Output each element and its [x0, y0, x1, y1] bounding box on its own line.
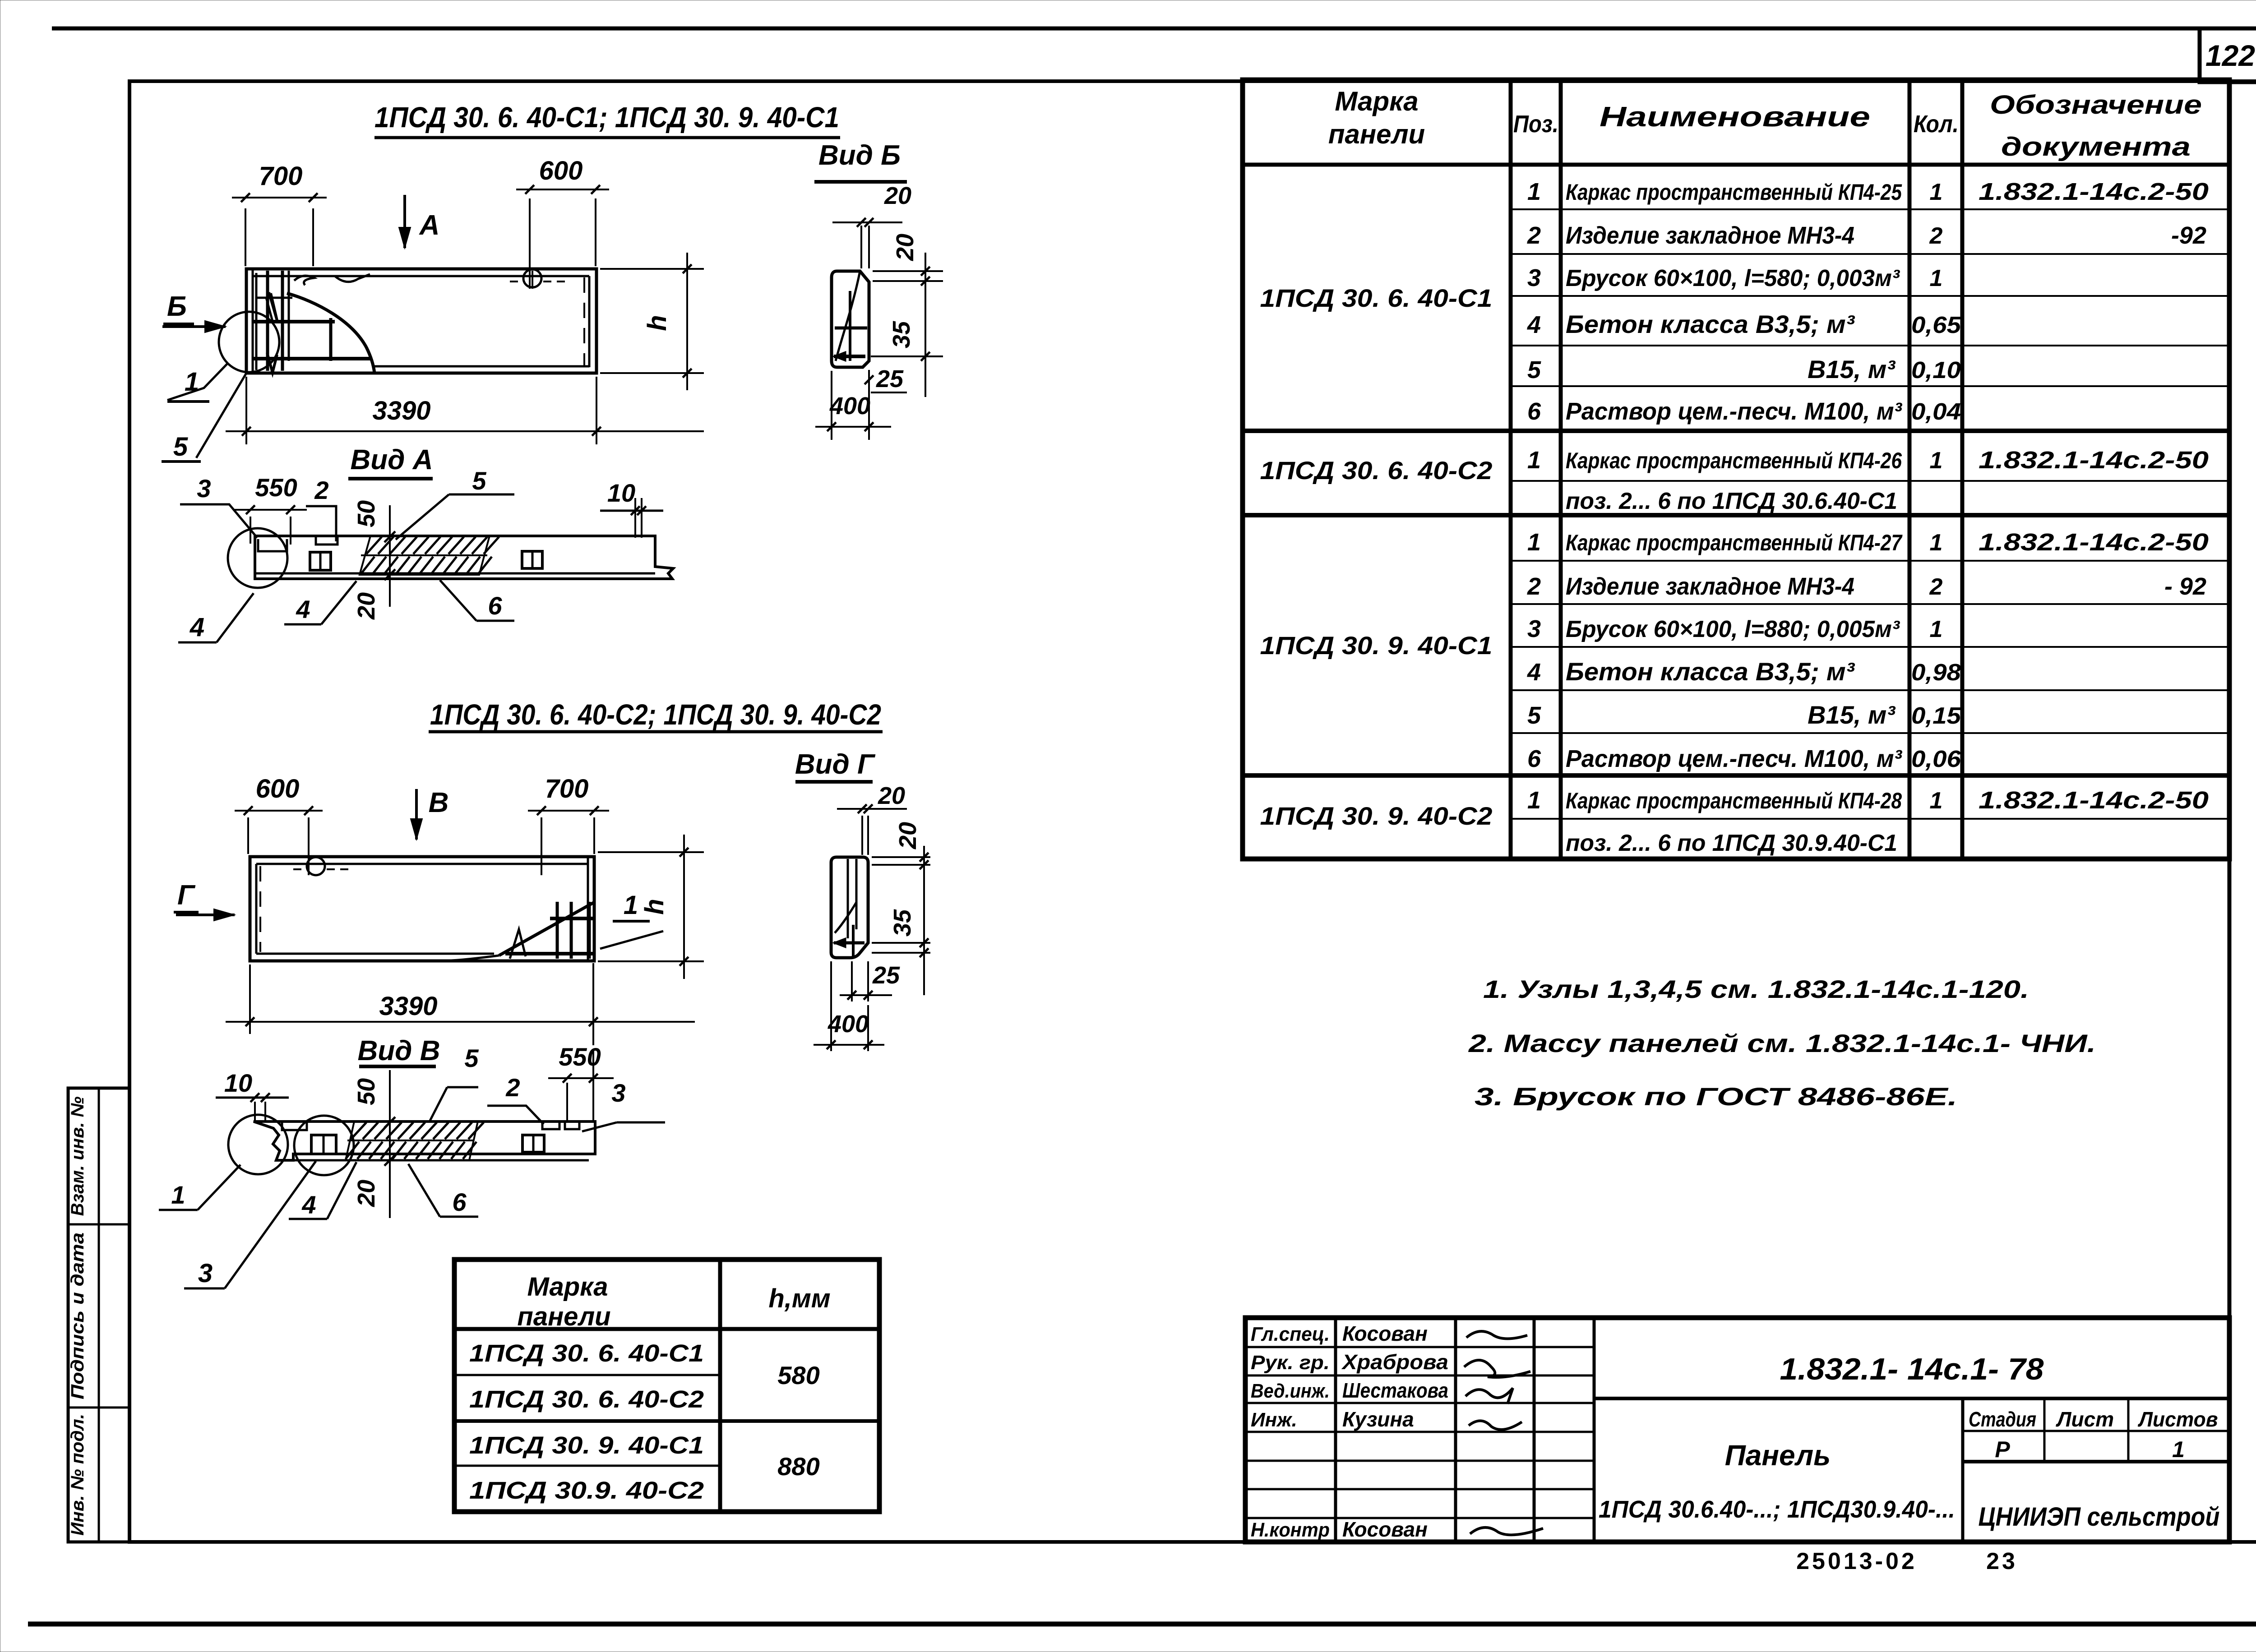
svg-text:23: 23 [1986, 1548, 2018, 1574]
svg-text:3: 3 [197, 474, 211, 503]
svg-text:1: 1 [1930, 788, 1943, 814]
svg-text:35: 35 [889, 909, 916, 937]
sheet bottom rule [28, 1622, 2256, 1627]
signatures squiggles [1466, 1331, 1527, 1338]
svg-text:1ПСД 30. 9. 40-С2: 1ПСД 30. 9. 40-С2 [1260, 802, 1493, 830]
svg-text:1.832.1-14с.2-50: 1.832.1-14с.2-50 [1979, 447, 2209, 474]
svg-text:Вид Г: Вид Г [795, 749, 876, 780]
svg-text:поз. 2... 6 по 1ПСД 30.9.40-С1: поз. 2... 6 по 1ПСД 30.9.40-С1 [1566, 830, 1897, 856]
strip B mid dash line [347, 1140, 474, 1141]
panel C1 top-right anchor circle [523, 269, 541, 287]
svg-text:Брусок 60×100, l=580; 0,003м³: Брусок 60×100, l=580; 0,003м³ [1566, 265, 1900, 291]
svg-text:Г: Г [177, 880, 196, 911]
svg-text:580: 580 [777, 1361, 819, 1389]
svg-text:Кузина: Кузина [1342, 1407, 1414, 1431]
svg-text:h: h [640, 899, 669, 914]
right edge connector below table [2228, 859, 2232, 1318]
svg-text:3: 3 [1527, 615, 1541, 642]
svg-text:Р: Р [1995, 1437, 2010, 1462]
svg-text:Косован: Косован [1342, 1322, 1428, 1345]
svg-text:ЦНИИЭП сельстрой: ЦНИИЭП сельстрой [1979, 1502, 2220, 1532]
svg-text:700: 700 [259, 162, 303, 191]
strip B centerline [389, 1070, 391, 1218]
panel C1 dashed inner lines [583, 277, 585, 365]
panel C2 diagonal [499, 902, 594, 955]
svg-text:25013-02: 25013-02 [1796, 1548, 1917, 1574]
svg-text:550: 550 [559, 1043, 601, 1071]
view B strip outline [254, 1121, 595, 1160]
section B outline [832, 271, 869, 367]
svg-text:Каркас пространственный КП4-25: Каркас пространственный КП4-25 [1566, 180, 1902, 205]
svg-text:1.832.1-14с.2-50: 1.832.1-14с.2-50 [1979, 787, 2209, 814]
dimension h (C2) [598, 851, 704, 853]
dimension 600 [529, 198, 531, 289]
svg-text:Взам. инв. №: Взам. инв. № [68, 1096, 88, 1216]
section arrow А [403, 195, 406, 248]
svg-text:2: 2 [1929, 574, 1943, 600]
stadia grid [1963, 1430, 2229, 1432]
svg-text:1: 1 [2172, 1437, 2185, 1462]
svg-text:Каркас пространственный КП4-26: Каркас пространственный КП4-26 [1566, 448, 1902, 473]
page number box [2200, 28, 2256, 82]
svg-text:Марка: Марка [527, 1272, 608, 1301]
strip A mid dash-dot line [361, 554, 487, 556]
section B inner bars [849, 291, 851, 361]
svg-text:1: 1 [1930, 448, 1943, 474]
svg-text:Бетон класса В3,5; м³: Бетон класса В3,5; м³ [1566, 657, 1855, 686]
specification table [1243, 80, 2229, 859]
svg-text:Обозначение: Обозначение [1990, 90, 2202, 120]
svg-text:поз. 2... 6 по 1ПСД 30.6.40-С1: поз. 2... 6 по 1ПСД 30.6.40-С1 [1566, 488, 1897, 514]
section G inner lines [847, 859, 849, 938]
svg-text:Раствор цем.-песч. М100, м³: Раствор цем.-песч. М100, м³ [1566, 398, 1903, 425]
svg-text:6: 6 [488, 591, 502, 620]
strip B hatch region [346, 1121, 478, 1160]
svg-text:0,98: 0,98 [1911, 660, 1961, 686]
svg-text:1. Узлы 1,3,4,5 см. 1.832.1: 1. Узлы 1,3,4,5 см. 1.832.1-14с.1-120. [1483, 975, 2029, 1003]
svg-text:Наименование: Наименование [1600, 102, 1870, 133]
svg-text:3: 3 [198, 1259, 213, 1288]
svg-text:4: 4 [1527, 311, 1541, 338]
svg-text:Стадия: Стадия [1969, 1407, 2036, 1431]
strip B hatching [351, 1122, 366, 1139]
svg-text:документа: документа [2001, 132, 2191, 162]
svg-text:h,мм: h,мм [768, 1284, 830, 1313]
view A strip outline [255, 536, 673, 579]
svg-text:1.832.1- 14с.1- 78: 1.832.1- 14с.1- 78 [1780, 1352, 2044, 1386]
svg-text:10: 10 [224, 1069, 252, 1097]
section B inner curve [836, 271, 860, 361]
svg-text:1: 1 [1930, 265, 1943, 291]
svg-text:Инж.: Инж. [1251, 1409, 1297, 1431]
dimension 600 (C2) [247, 817, 249, 854]
svg-text:Вид В: Вид В [358, 1035, 440, 1066]
svg-text:4: 4 [301, 1191, 316, 1219]
svg-text:Марка: Марка [1335, 86, 1418, 116]
svg-text:4: 4 [190, 613, 204, 642]
svg-text:Лист: Лист [2056, 1407, 2114, 1431]
panel C1 inner border [253, 275, 589, 277]
strip B embed plates [311, 1135, 336, 1154]
svg-text:Каркас пространственный КП4-28: Каркас пространственный КП4-28 [1566, 788, 1902, 813]
svg-text:20: 20 [878, 782, 905, 809]
title block [1245, 1318, 2229, 1542]
section G outline [831, 857, 868, 958]
svg-text:5: 5 [1527, 702, 1541, 729]
svg-text:В15, м³: В15, м³ [1808, 701, 1895, 729]
svg-text:1ПСД 30. 6. 40-С2: 1ПСД 30. 6. 40-С2 [469, 1386, 704, 1413]
svg-text:1ПСД 30. 6. 40-С2: 1ПСД 30. 6. 40-С2 [1260, 456, 1493, 485]
svg-text:Изделие закладное МН3-4: Изделие закладное МН3-4 [1566, 222, 1854, 249]
panel C2 dashed line left [259, 866, 261, 952]
svg-text:Раствор цем.-песч. М100, м³: Раствор цем.-песч. М100, м³ [1566, 745, 1903, 772]
svg-text:122: 122 [2205, 39, 2255, 72]
dimension 3390 (C2) [249, 964, 251, 1034]
panel C2 cage right [556, 902, 559, 959]
strip A hatch region [360, 536, 490, 575]
callout circle (strip A) [228, 528, 287, 588]
svg-text:20: 20 [353, 1180, 380, 1207]
svg-text:h: h [643, 315, 672, 331]
svg-text:Косован: Косован [1342, 1518, 1428, 1541]
svg-text:Листов: Листов [2138, 1407, 2218, 1431]
svg-text:Изделие закладное МН3-4: Изделие закладное МН3-4 [1566, 573, 1854, 600]
dimension 3390 (C1) [245, 377, 247, 444]
svg-text:Рук. гр.: Рук. гр. [1251, 1352, 1330, 1374]
svg-text:50: 50 [353, 1078, 380, 1105]
section B dims [860, 226, 862, 268]
svg-text:5: 5 [472, 466, 486, 495]
svg-text:1: 1 [1527, 529, 1541, 556]
svg-text:1ПСД 30. 9. 40-С1: 1ПСД 30. 9. 40-С1 [1260, 631, 1493, 660]
strip B notch left [282, 1121, 307, 1130]
svg-text:600: 600 [256, 774, 300, 803]
svg-text:50: 50 [353, 500, 380, 527]
svg-text:10: 10 [607, 479, 635, 507]
svg-text:Шестакова: Шестакова [1342, 1379, 1448, 1402]
svg-text:Храброва: Храброва [1341, 1350, 1448, 1374]
svg-text:20: 20 [894, 822, 921, 849]
panel C1 plan view outline [246, 269, 596, 373]
leader to 5 [196, 373, 246, 458]
svg-text:1.832.1-14с.2-50: 1.832.1-14с.2-50 [1979, 178, 2209, 205]
h-table [454, 1260, 879, 1512]
svg-text:Поз.: Поз. [1513, 111, 1558, 138]
svg-text:2: 2 [1527, 222, 1541, 249]
svg-text:25: 25 [876, 365, 904, 392]
callout circles (strip B) [228, 1115, 288, 1174]
svg-text:1: 1 [624, 891, 638, 920]
svg-text:1ПСД 30. 6. 40-С1; 1ПСД 30.: 1ПСД 30. 6. 40-С1; 1ПСД 30. 9. 40-С1 [374, 101, 839, 134]
strip A centerline [389, 505, 391, 607]
panel C2 inner border [256, 863, 588, 865]
svg-text:1ПСД 30. 6. 40-С1: 1ПСД 30. 6. 40-С1 [1260, 284, 1493, 312]
dimension 700 (C2) [541, 817, 542, 875]
svg-text:1ПСД 30. 6. 40-С2; 1ПСД 30.: 1ПСД 30. 6. 40-С2; 1ПСД 30. 9. 40-С2 [430, 698, 881, 731]
svg-text:1: 1 [171, 1181, 185, 1209]
svg-text:6: 6 [1527, 745, 1541, 772]
svg-text:Инв. № подл.: Инв. № подл. [68, 1414, 88, 1536]
svg-text:панели: панели [1328, 119, 1425, 149]
left margin strip [68, 1088, 129, 1542]
svg-text:1ПСД 30. 6. 40-С1: 1ПСД 30. 6. 40-С1 [469, 1340, 704, 1367]
svg-text:1.832.1-14с.2-50: 1.832.1-14с.2-50 [1979, 529, 2209, 556]
leader to 1 [167, 363, 228, 400]
svg-text:Каркас пространственный КП4-27: Каркас пространственный КП4-27 [1566, 530, 1903, 555]
svg-text:5: 5 [173, 432, 188, 461]
svg-text:700: 700 [545, 774, 589, 803]
svg-text:6: 6 [1527, 398, 1541, 425]
svg-text:600: 600 [539, 156, 583, 185]
svg-text:1: 1 [185, 367, 199, 397]
svg-text:1ПСД 30. 9. 40-С1: 1ПСД 30. 9. 40-С1 [469, 1432, 704, 1459]
svg-text:20: 20 [353, 592, 380, 620]
panel C1 cage zigzag [269, 292, 277, 320]
doc number cell [1594, 1397, 2229, 1400]
svg-text:Б: Б [167, 291, 187, 322]
svg-text:550: 550 [255, 473, 297, 502]
svg-text:1: 1 [1930, 616, 1943, 642]
dimension h (C1) [600, 268, 704, 270]
strip A hatching [366, 537, 382, 554]
svg-text:Вид А: Вид А [351, 444, 433, 475]
svg-text:2. Массу панелей см. 1.832.1: 2. Массу панелей см. 1.832.1-14с.1- ЧНИ. [1468, 1029, 2096, 1057]
svg-text:20: 20 [892, 234, 919, 261]
svg-text:- 92: - 92 [2164, 573, 2206, 600]
svg-text:5: 5 [1527, 356, 1541, 383]
section arrow В [415, 789, 418, 840]
svg-text:А: А [419, 210, 440, 241]
svg-text:20: 20 [884, 182, 911, 209]
svg-text:35: 35 [888, 321, 915, 348]
svg-text:В: В [429, 787, 449, 818]
dimension 700 [245, 208, 246, 266]
svg-text:2: 2 [505, 1073, 520, 1102]
panel C2 top-left anchor circle [307, 857, 325, 875]
svg-text:Гл.спец.: Гл.спец. [1251, 1323, 1330, 1345]
svg-text:Панель: Панель [1725, 1439, 1831, 1472]
svg-text:0,10: 0,10 [1911, 357, 1961, 383]
svg-text:6: 6 [452, 1188, 467, 1216]
svg-text:880: 880 [777, 1452, 819, 1481]
svg-text:3. Брусок по ГОСТ 8486-86Е.: 3. Брусок по ГОСТ 8486-86Е. [1475, 1082, 1957, 1111]
svg-text:3390: 3390 [372, 396, 430, 425]
svg-text:Вид Б: Вид Б [818, 140, 901, 171]
name cell [1961, 1398, 1965, 1542]
svg-text:3390: 3390 [379, 992, 437, 1021]
svg-text:400: 400 [828, 1011, 869, 1038]
svg-text:-92: -92 [2171, 222, 2206, 249]
strip A notch [258, 539, 287, 551]
svg-text:2: 2 [1527, 573, 1541, 600]
svg-text:Кол.: Кол. [1914, 111, 1959, 138]
svg-text:4: 4 [296, 595, 310, 623]
svg-text:1: 1 [1930, 530, 1943, 556]
svg-text:В15, м³: В15, м³ [1808, 355, 1895, 383]
svg-text:2: 2 [1929, 223, 1943, 249]
svg-text:400: 400 [829, 392, 870, 420]
callout circle node 1 (C1) [219, 312, 279, 372]
svg-text:25: 25 [872, 962, 900, 989]
panel C2 plan view outline [250, 857, 594, 961]
svg-text:Брусок 60×100, l=880; 0,005м³: Брусок 60×100, l=880; 0,005м³ [1566, 616, 1900, 642]
svg-text:панели: панели [517, 1302, 610, 1331]
panel C1 cutaway arc [287, 293, 374, 373]
svg-text:0,15: 0,15 [1911, 703, 1961, 729]
svg-text:3: 3 [611, 1079, 625, 1107]
svg-text:5: 5 [464, 1044, 479, 1072]
dimension 550 (strip A) [250, 517, 251, 544]
svg-text:0,06: 0,06 [1911, 746, 1961, 772]
sheet top rule [52, 27, 2256, 31]
svg-text:2: 2 [314, 476, 328, 504]
svg-text:1: 1 [1527, 178, 1541, 205]
svg-text:1: 1 [1527, 447, 1541, 474]
svg-text:1: 1 [1930, 179, 1943, 205]
svg-text:Бетон класса В3,5; м³: Бетон класса В3,5; м³ [1566, 310, 1855, 338]
svg-text:Вед.инж.: Вед.инж. [1251, 1380, 1330, 1402]
svg-text:3: 3 [1527, 264, 1541, 291]
section G dims [861, 816, 863, 855]
svg-text:Подпись и дата: Подпись и дата [68, 1232, 88, 1399]
svg-text:Н.контр: Н.контр [1251, 1519, 1330, 1541]
title block signature grid [1334, 1318, 1337, 1542]
svg-text:0,04: 0,04 [1911, 399, 1961, 425]
svg-text:0,65: 0,65 [1911, 312, 1961, 338]
panel C2 cutaway arc [451, 955, 499, 960]
svg-text:1: 1 [1527, 787, 1541, 814]
svg-text:1ПСД 30.6.40-...; 1ПСД30.9.40-: 1ПСД 30.6.40-...; 1ПСД30.9.40-... [1599, 1496, 1955, 1523]
panel C1 top hooks [294, 276, 314, 285]
panel C1 cage bars [255, 273, 258, 370]
strip B notches right [542, 1121, 559, 1129]
svg-text:1ПСД 30.9. 40-С2: 1ПСД 30.9. 40-С2 [469, 1477, 704, 1504]
strip A embed plates [310, 552, 331, 570]
svg-text:4: 4 [1527, 659, 1541, 686]
